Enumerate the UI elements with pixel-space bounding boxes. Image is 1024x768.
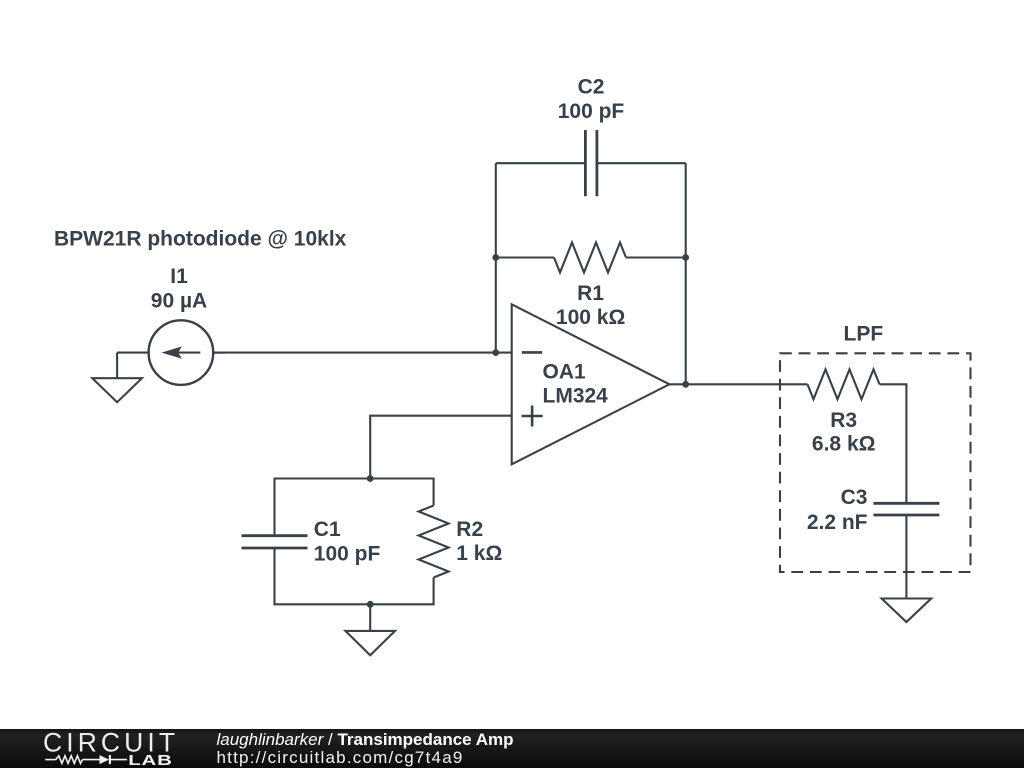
wire C1/R2 box top bbox=[275, 479, 434, 536]
wire op-amp output bbox=[669, 383, 807, 385]
wire C3 to ground bbox=[905, 515, 907, 598]
footer bar bbox=[0, 729, 1024, 768]
wire to ground (C1/R2) bbox=[369, 604, 371, 631]
wire feedback left branch bbox=[495, 163, 497, 352]
ground (under I1) bbox=[92, 378, 142, 402]
svg-text:LAB: LAB bbox=[128, 752, 172, 768]
wire C2 right lead bbox=[597, 162, 686, 164]
wire C2 left lead bbox=[496, 162, 586, 164]
LPF dashed box bbox=[780, 353, 971, 572]
logo resistor symbol bbox=[45, 756, 99, 764]
svg-text:http://circuitlab.com/cg7t4a9: http://circuitlab.com/cg7t4a9 bbox=[217, 748, 464, 767]
wire I1 left lead down to ground bbox=[116, 353, 118, 379]
resistor R1 bbox=[554, 243, 626, 273]
capacitor C2 bbox=[585, 130, 597, 196]
node: C1/R2 bottom junction bbox=[367, 601, 374, 608]
node: output junction bbox=[682, 381, 689, 388]
wire R1 right lead bbox=[626, 256, 686, 258]
resistor R2 bbox=[419, 506, 449, 578]
wire I1 output to op-amp inverting input bbox=[213, 352, 512, 354]
svg-text:laughlinbarker / Transimpedanc: laughlinbarker / Transimpedance Amp bbox=[217, 730, 514, 749]
logo diode symbol bbox=[100, 755, 128, 764]
wire C1/R2 box bottom bbox=[275, 548, 434, 604]
wire feedback right branch bbox=[685, 163, 687, 384]
capacitor C1 bbox=[242, 536, 308, 548]
wire non-inverting input bbox=[370, 416, 512, 479]
node: C1/R2 top junction bbox=[367, 475, 374, 482]
op-amp minus sign bbox=[522, 351, 542, 354]
op-amp plus sign bbox=[522, 406, 543, 427]
node: inverting input junction bbox=[492, 349, 499, 356]
resistor R3 bbox=[808, 369, 880, 399]
ground (under C3) bbox=[882, 599, 932, 623]
node: R1 left junction bbox=[492, 254, 499, 261]
node: R1/C2 feedback junction bbox=[682, 254, 689, 261]
wire R3 to C3 bbox=[880, 384, 907, 503]
capacitor C3 bbox=[873, 503, 939, 515]
op-amp OA1 bbox=[512, 304, 670, 464]
wire R1 left lead bbox=[496, 256, 554, 258]
ground (under C1/R2) bbox=[345, 631, 395, 655]
current source I1 bbox=[117, 320, 225, 385]
